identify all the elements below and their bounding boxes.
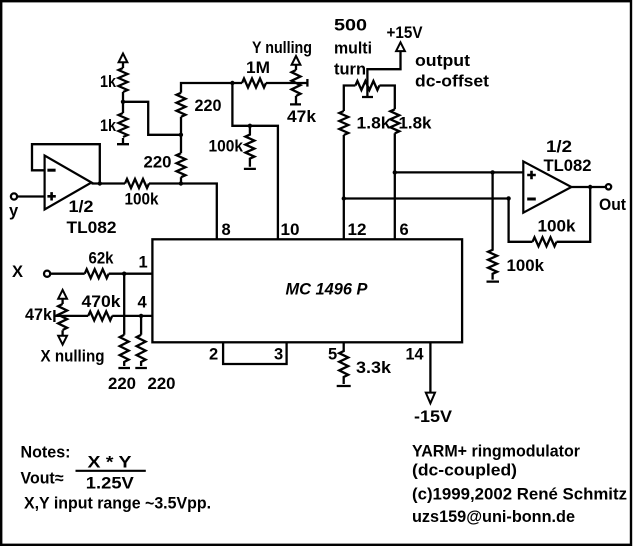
wire 1.8k left to pin 12 <box>343 135 345 239</box>
svg-text:y: y <box>9 202 19 220</box>
svg-text:100k: 100k <box>507 257 545 275</box>
resistor 1.8k (left) <box>339 111 348 135</box>
svg-text:Y nulling: Y nulling <box>252 39 312 57</box>
resistor 100k (to ground at U2+) <box>487 172 500 281</box>
node pin6 branch <box>393 170 397 174</box>
svg-text:6: 6 <box>400 221 409 239</box>
op-amp U2 (1/2 TL082, output) <box>523 161 571 212</box>
svg-text:output: output <box>415 52 471 70</box>
svg-text:100k: 100k <box>538 218 577 236</box>
svg-text:X nulling: X nulling <box>41 348 105 366</box>
wire 1.8k right to pin 6 <box>394 133 396 239</box>
svg-text:47k: 47k <box>25 306 53 324</box>
label 500 multi turn <box>334 17 372 79</box>
potentiometer 47k (X nulling) <box>54 290 88 345</box>
wire U2 output <box>571 186 605 188</box>
terminal bar below 1k <box>117 138 129 144</box>
resistor 100k (U2 feedback) <box>533 237 557 246</box>
svg-text:1/2: 1/2 <box>546 138 572 156</box>
wire 1k junction to 220 junction <box>123 102 181 135</box>
svg-text:-15V: -15V <box>414 408 452 426</box>
svg-text:8: 8 <box>222 221 231 239</box>
svg-text:dc-offset: dc-offset <box>415 73 490 91</box>
wire 62k to pin 1 <box>109 273 153 275</box>
svg-text:2: 2 <box>209 346 218 364</box>
input port X <box>44 271 50 277</box>
wire 100k to pin 8 <box>149 184 217 240</box>
svg-text:multi: multi <box>334 40 372 58</box>
wire pin4 junction down to 220 <box>140 316 142 335</box>
potentiometer 500 (output dc-offset) <box>344 81 395 111</box>
svg-text:1k: 1k <box>100 73 117 91</box>
svg-text:X * Y: X * Y <box>88 454 132 472</box>
wire pin 14 to -15V <box>429 342 431 392</box>
svg-text:+15V: +15V <box>387 24 423 42</box>
svg-text:(c)1999,2002 René Schmitz: (c)1999,2002 René Schmitz <box>412 486 627 504</box>
wire pin1 junction down to 220 <box>123 274 125 335</box>
svg-text:TL082: TL082 <box>67 219 117 237</box>
wire U1 feedback loop <box>32 144 100 183</box>
wire to U2 plus input <box>395 171 524 173</box>
svg-text:X: X <box>12 263 23 281</box>
credits text <box>412 443 627 527</box>
svg-text:3.3k: 3.3k <box>356 359 392 377</box>
resistor 62k <box>85 269 109 278</box>
wire +15V to pot wiper <box>367 51 400 92</box>
svg-text:470k: 470k <box>82 293 122 311</box>
svg-text:TL082: TL082 <box>544 157 592 175</box>
resistor 1M <box>242 79 266 88</box>
node 1k junction <box>121 100 125 104</box>
node 100k ground tap <box>490 170 494 174</box>
wire 470k to pin 4 <box>112 315 152 317</box>
power +15V arrow (1k chain) <box>119 54 128 63</box>
label output dc-offset <box>415 52 490 91</box>
resistor 220 (left bias) <box>118 335 130 368</box>
output port Out <box>606 184 611 189</box>
svg-text:(dc-coupled): (dc-coupled) <box>412 462 517 480</box>
resistor 470k <box>88 311 112 320</box>
resistor 1k (lower) <box>119 113 128 137</box>
wire U1 output <box>92 182 126 184</box>
resistor 1.8k (right) <box>390 109 399 133</box>
svg-text:uzs159@uni-bonn.de: uzs159@uni-bonn.de <box>412 508 575 526</box>
resistor 100k (U1 output) <box>125 179 149 188</box>
svg-text:220: 220 <box>108 375 136 393</box>
resistor 100k (to ground, Y path) <box>244 126 256 169</box>
svg-text:100k: 100k <box>125 190 160 208</box>
node 220 chain tap <box>179 181 183 185</box>
wire y input to U1+ <box>17 195 44 197</box>
wire 220 lower to output wire <box>180 177 182 183</box>
svg-text:220: 220 <box>195 97 222 115</box>
power +15V arrow (offset pot) <box>396 42 405 51</box>
svg-text:Notes:: Notes: <box>21 444 71 462</box>
wire arrow to R 1k <box>122 62 124 68</box>
svg-text:1.8k: 1.8k <box>357 115 392 133</box>
svg-text:10: 10 <box>281 221 300 239</box>
resistor 220 (right bias) <box>135 335 147 368</box>
svg-text:220: 220 <box>144 154 172 172</box>
wire pins 2-3 bracket <box>223 342 287 364</box>
potentiometer 47k (Y nulling) <box>266 56 307 104</box>
resistor 1k (upper) <box>119 68 128 92</box>
svg-text:3: 3 <box>274 346 283 364</box>
svg-text:12: 12 <box>348 221 367 239</box>
wire to U2 minus input <box>344 197 509 199</box>
fraction bar <box>76 470 146 472</box>
node 1M junction <box>230 81 234 85</box>
svg-text:1k: 1k <box>100 117 117 135</box>
svg-text:14: 14 <box>406 346 425 364</box>
wire 1M junction to pin 10 <box>232 83 278 239</box>
node pin4 junction <box>139 314 143 318</box>
resistor 3.3k (pin 5) <box>337 342 351 386</box>
node 220 junction <box>179 133 183 137</box>
svg-text:X,Y input range ~3.5Vpp.: X,Y input range ~3.5Vpp. <box>24 495 211 513</box>
svg-text:100k: 100k <box>209 137 244 155</box>
svg-text:1/2: 1/2 <box>69 198 94 216</box>
notes text <box>21 444 212 513</box>
svg-text:Out: Out <box>599 196 626 214</box>
wire U2 feedback <box>509 187 591 242</box>
node pin12 branch <box>342 196 346 200</box>
svg-text:220: 220 <box>148 375 176 393</box>
node U2 feedback tap <box>588 185 592 189</box>
svg-text:4: 4 <box>138 294 148 312</box>
svg-text:500: 500 <box>334 17 367 35</box>
wire X to 62k <box>50 273 84 275</box>
resistor 220 (lower) <box>177 153 186 177</box>
wire between 220 resistors <box>180 117 182 153</box>
svg-text:1.25V: 1.25V <box>86 475 134 493</box>
svg-text:turn: turn <box>334 61 366 79</box>
svg-text:47k: 47k <box>287 108 317 126</box>
IC U3 MC1496P <box>152 239 462 342</box>
svg-text:5: 5 <box>328 346 337 364</box>
svg-text:62k: 62k <box>89 249 115 267</box>
input port y <box>11 193 17 199</box>
node U2 minus junction <box>506 196 510 200</box>
svg-text:1.8k: 1.8k <box>399 115 433 133</box>
svg-text:YARM+ ringmodulator: YARM+ ringmodulator <box>412 443 581 461</box>
node 100k tap <box>248 124 252 128</box>
node pin1 junction <box>122 272 126 276</box>
wire between 1k resistors <box>122 92 124 113</box>
resistor 220 (upper) <box>177 93 186 117</box>
svg-text:1M: 1M <box>246 59 270 77</box>
svg-text:Vout≈: Vout≈ <box>21 470 64 488</box>
node U1 output junction <box>98 181 102 185</box>
wire 220 top to Y-null rail <box>181 83 242 93</box>
power -15V arrow <box>426 393 435 404</box>
svg-text:MC 1496 P: MC 1496 P <box>286 281 369 299</box>
op-amp U1 (1/2 TL082, Y input buffer) <box>45 156 92 210</box>
svg-text:1: 1 <box>139 254 148 272</box>
